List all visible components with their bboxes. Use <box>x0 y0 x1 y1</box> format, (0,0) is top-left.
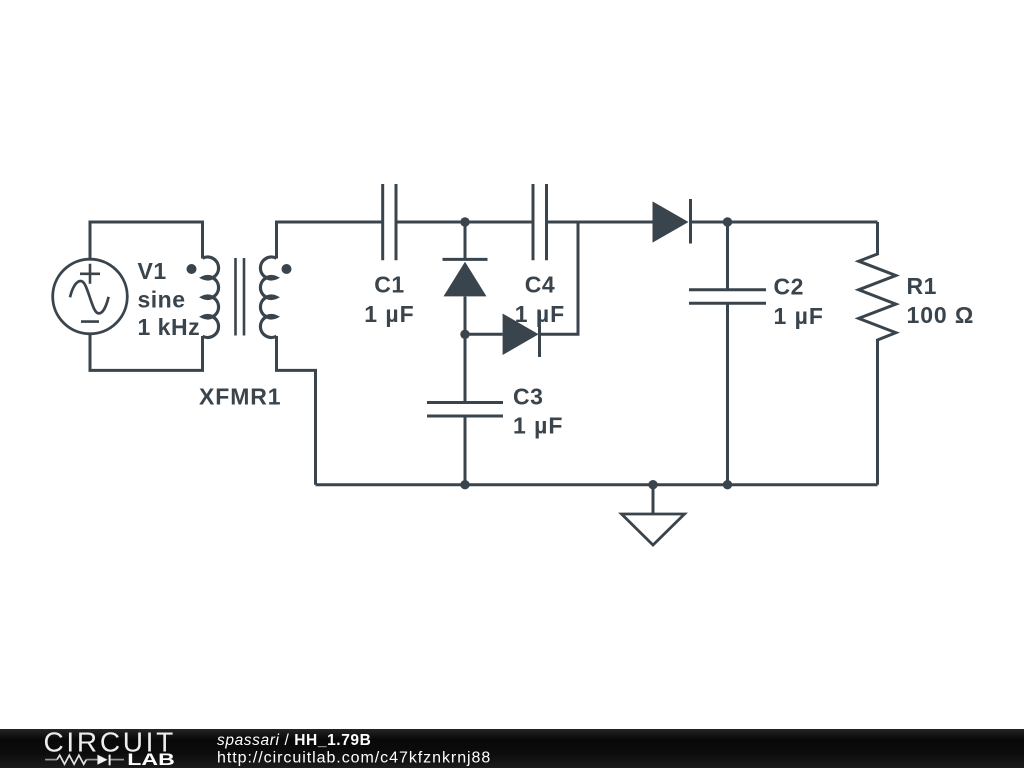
footer bar <box>0 729 1024 768</box>
wire node A down through D1 to C3 <box>464 222 467 485</box>
labels <box>138 258 975 439</box>
wire C1 to node A <box>396 221 533 224</box>
diode D1 (vertical, pointing up) <box>443 259 488 296</box>
node dot C3 bottom <box>460 480 469 489</box>
secondary phase dot <box>282 264 292 274</box>
svg-text:1 µF: 1 µF <box>515 301 565 327</box>
svg-text:1 µF: 1 µF <box>513 413 563 439</box>
node dot D1/D2/C3 <box>460 330 469 339</box>
node dot C2 bottom <box>723 480 732 489</box>
wire ground stub <box>652 485 655 514</box>
wire V1 top to primary <box>90 222 203 260</box>
svg-text:LAB: LAB <box>127 751 175 768</box>
wire C2 branch <box>726 222 729 485</box>
wire bottom rail <box>316 483 878 486</box>
svg-text:sine: sine <box>138 287 186 313</box>
svg-text:1 µF: 1 µF <box>774 303 824 329</box>
transformer XFMR1 secondary coil <box>260 257 276 338</box>
svg-text:C2: C2 <box>774 274 804 300</box>
svg-text:spassari / HH_1.79B: spassari / HH_1.79B <box>217 732 371 749</box>
capacitor C1 <box>383 184 396 260</box>
svg-text:XFMR1: XFMR1 <box>199 384 281 410</box>
svg-text:1 kHz: 1 kHz <box>138 314 201 340</box>
voltage source V1 <box>53 259 128 334</box>
node junction dots <box>460 217 732 489</box>
wire node B to D2 and up to top net <box>465 222 578 334</box>
wire V1 bottom to primary bottom <box>90 334 203 370</box>
node dot D3/C2 <box>723 217 732 226</box>
svg-text:V1: V1 <box>138 258 167 284</box>
logo squiggle resistor-diode <box>45 755 124 766</box>
node dot C1/D1 <box>460 217 469 226</box>
svg-text:R1: R1 <box>907 273 937 299</box>
svg-text:100 Ω: 100 Ω <box>907 302 975 328</box>
transformer XFMR1 primary coil <box>203 257 219 338</box>
logo diode triangle <box>97 755 107 765</box>
ground <box>622 514 685 545</box>
diode D3 (horizontal, pointing right) <box>653 199 691 244</box>
wire secondary bottom to ground rail <box>277 336 316 485</box>
capacitor C4 <box>533 184 547 260</box>
svg-text:1 µF: 1 µF <box>364 301 414 327</box>
svg-text:C4: C4 <box>525 272 555 298</box>
node dot ground <box>648 480 657 489</box>
svg-text:C1: C1 <box>374 272 404 298</box>
transformer core <box>236 258 245 336</box>
wire C4 to D3 <box>547 221 653 224</box>
capacitor C3 <box>427 403 503 417</box>
wire D3 cathode to R1 <box>691 221 878 224</box>
capacitor C2 <box>689 290 766 304</box>
resistor R1 <box>859 222 896 485</box>
svg-text:http://circuitlab.com/c47kfznk: http://circuitlab.com/c47kfznkrnj88 <box>217 750 491 767</box>
primary phase dot <box>187 264 197 274</box>
diode D2 (horizontal, pointing right) <box>503 311 540 357</box>
svg-text:C3: C3 <box>513 384 543 410</box>
wire secondary top to C1 <box>277 222 383 259</box>
